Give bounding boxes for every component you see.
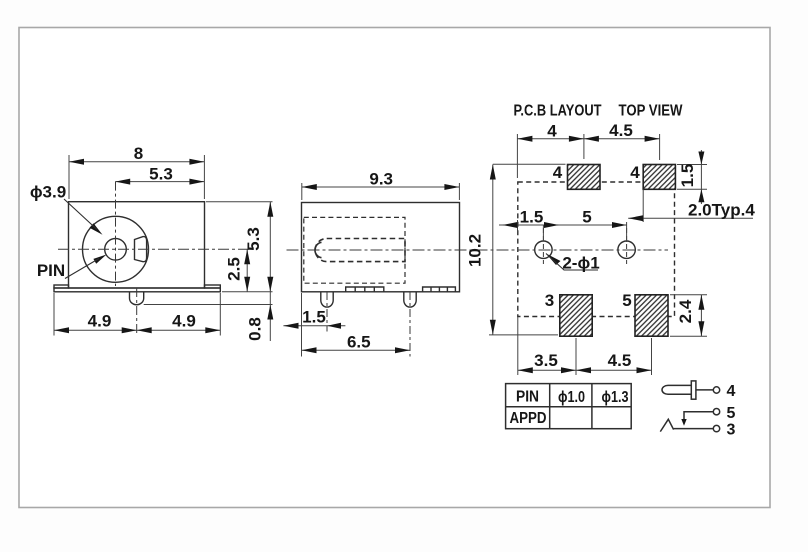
svg-text:6.5: 6.5 bbox=[347, 333, 371, 352]
side view bottom tabs group 2 bbox=[423, 287, 456, 292]
svg-text:8: 8 bbox=[134, 144, 143, 163]
arrow 2.0 leader bbox=[628, 215, 643, 221]
schematic terminal 5 bbox=[713, 409, 719, 415]
schematic switch arrow bbox=[681, 419, 686, 426]
dim 5.3 line bbox=[115, 181, 204, 183]
svg-text:P.C.B LAYOUT: P.C.B LAYOUT bbox=[514, 103, 602, 120]
arrows 2.4 bbox=[698, 295, 704, 310]
pcb dashed outline bbox=[518, 182, 675, 317]
svg-text:3: 3 bbox=[545, 291, 554, 310]
arrows 6.5 bbox=[302, 347, 317, 353]
side view body bbox=[302, 203, 460, 292]
dim 10.2 line bbox=[492, 165, 494, 335]
svg-text:0.8: 0.8 bbox=[246, 317, 265, 341]
schematic line pin 4 bbox=[696, 389, 713, 391]
hole left centerline bbox=[542, 228, 544, 264]
dim 4 / 4.5 top line bbox=[517, 138, 659, 140]
dim 2.0Typ.4 leader bbox=[628, 217, 753, 219]
svg-text:4: 4 bbox=[553, 163, 563, 182]
arrows dim 5.3v bbox=[267, 202, 273, 217]
front view horizontal centerline bbox=[58, 248, 253, 250]
arrows 4 / 4.5 bbox=[517, 136, 532, 142]
svg-text:PIN: PIN bbox=[516, 389, 539, 406]
front view inner circle bbox=[105, 239, 127, 261]
svg-text:9.3: 9.3 bbox=[369, 170, 393, 189]
schematic spring pin 3 bbox=[660, 419, 713, 431]
side view inner dashed outline bbox=[304, 217, 405, 283]
arrows 1.5 / 5 bbox=[502, 222, 517, 228]
side view leg1 centerline bbox=[326, 292, 328, 332]
hole right bbox=[618, 241, 635, 258]
front view right tab bbox=[205, 285, 221, 288]
svg-text:5: 5 bbox=[622, 291, 631, 310]
front view body bbox=[69, 202, 205, 288]
svg-text:4: 4 bbox=[547, 122, 557, 141]
arrows 1.5 side bbox=[283, 323, 298, 329]
side view leg 1 bbox=[321, 292, 333, 307]
arrows 10.2 bbox=[490, 165, 496, 180]
arrows dim 8 bbox=[69, 159, 84, 165]
side view barrel slot dashed bbox=[315, 239, 405, 262]
leg bottom line bbox=[144, 304, 273, 306]
front view vertical centerline bbox=[115, 182, 117, 286]
arrows 9.3 bbox=[302, 184, 317, 190]
schematic crossbar bbox=[691, 381, 696, 399]
svg-text:ϕ3.9: ϕ3.9 bbox=[30, 183, 66, 202]
svg-text:5: 5 bbox=[582, 208, 591, 227]
svg-text:2-ϕ1: 2-ϕ1 bbox=[562, 254, 599, 273]
front view leg centerline bbox=[136, 288, 138, 334]
svg-text:3.5: 3.5 bbox=[534, 351, 558, 370]
svg-text:2.5: 2.5 bbox=[225, 257, 244, 281]
svg-text:5: 5 bbox=[727, 405, 736, 422]
front view left tab bbox=[54, 285, 69, 288]
pad 5 bottom-right bbox=[635, 295, 668, 336]
side view bottom tabs group 1 bbox=[346, 287, 384, 292]
svg-text:4: 4 bbox=[630, 163, 640, 182]
leader phi3.9 line bbox=[64, 199, 97, 230]
table frame bbox=[506, 384, 632, 429]
pad 4 top-left bbox=[568, 165, 601, 190]
centerlines bbox=[58, 182, 668, 357]
side view pin tip arc bbox=[315, 242, 322, 257]
arrows 1.5 right bbox=[698, 152, 704, 165]
flange bottom extension bbox=[222, 291, 273, 293]
front view outer circle bbox=[83, 216, 149, 282]
svg-text:ϕ1.0: ϕ1.0 bbox=[558, 389, 585, 406]
dim 3.5 / 4.5 bottom line bbox=[518, 369, 652, 371]
svg-text:5.3: 5.3 bbox=[244, 227, 263, 251]
svg-text:4.9: 4.9 bbox=[88, 312, 112, 331]
svg-text:2.4: 2.4 bbox=[676, 299, 695, 323]
dim 4.9 line bbox=[54, 329, 220, 331]
pad 3 bottom-left bbox=[560, 295, 592, 336]
arrow dim 0.8 bbox=[267, 305, 273, 320]
leader PIN arrow bbox=[93, 255, 106, 264]
svg-text:2.0Typ.4: 2.0Typ.4 bbox=[688, 201, 755, 220]
svg-text:4.9: 4.9 bbox=[172, 312, 196, 331]
svg-text:10.2: 10.2 bbox=[466, 234, 485, 267]
arrows dim 4.9 bbox=[54, 327, 69, 333]
side+pcb horizontal centerline bbox=[287, 249, 669, 251]
schematic line pin 5 bbox=[684, 412, 713, 420]
svg-text:3: 3 bbox=[727, 422, 736, 439]
svg-text:TOP VIEW: TOP VIEW bbox=[619, 103, 684, 120]
svg-text:5.3: 5.3 bbox=[149, 165, 173, 184]
side view leg2 centerline bbox=[409, 292, 411, 357]
leader 2-phi1 arrow bbox=[546, 254, 561, 266]
svg-text:ϕ1.3: ϕ1.3 bbox=[602, 389, 629, 406]
dim 1.5 / 5 line bbox=[499, 224, 627, 226]
svg-text:1.5: 1.5 bbox=[302, 308, 326, 327]
arrows 3.5 / 4.5 bbox=[518, 367, 533, 373]
schematic terminal 4 bbox=[713, 387, 719, 393]
arrows dim 2.5 bbox=[244, 249, 250, 264]
dim 6.5 line bbox=[302, 349, 411, 351]
dim 9.3 line bbox=[302, 186, 460, 188]
front view flange strip bbox=[54, 288, 220, 292]
hole right centerline bbox=[626, 228, 628, 264]
arrows dim 5.3 bbox=[115, 179, 130, 185]
dim 5.3 vertical line bbox=[269, 202, 271, 341]
svg-text:1.5: 1.5 bbox=[678, 164, 697, 188]
svg-text:4: 4 bbox=[727, 383, 736, 400]
svg-text:1.5: 1.5 bbox=[520, 208, 544, 227]
pad 4 top-right bbox=[643, 165, 675, 190]
leader phi3.9 arrow bbox=[90, 223, 103, 234]
front view center leg bbox=[130, 292, 144, 305]
leader 2-phi1 line bbox=[546, 254, 598, 271]
ext body left edge down bbox=[301, 293, 303, 357]
dim 2.5 vertical line bbox=[246, 249, 248, 291]
svg-text:4.5: 4.5 bbox=[608, 351, 632, 370]
front view contact notch bbox=[135, 237, 147, 262]
dim 1.5 line side bbox=[283, 325, 345, 327]
side view leg 2 bbox=[404, 292, 416, 307]
dim 8 line bbox=[69, 161, 204, 163]
dim 2.4 bbox=[700, 295, 702, 336]
schematic barrel pin 4 bbox=[662, 385, 691, 394]
svg-text:APPD: APPD bbox=[510, 410, 547, 427]
leader PIN line bbox=[65, 259, 99, 279]
hole left bbox=[535, 241, 552, 258]
svg-text:PIN: PIN bbox=[37, 261, 65, 280]
dim 1.5 right bbox=[700, 150, 702, 204]
svg-text:4.5: 4.5 bbox=[609, 121, 633, 140]
schematic terminal 3 bbox=[713, 425, 719, 431]
